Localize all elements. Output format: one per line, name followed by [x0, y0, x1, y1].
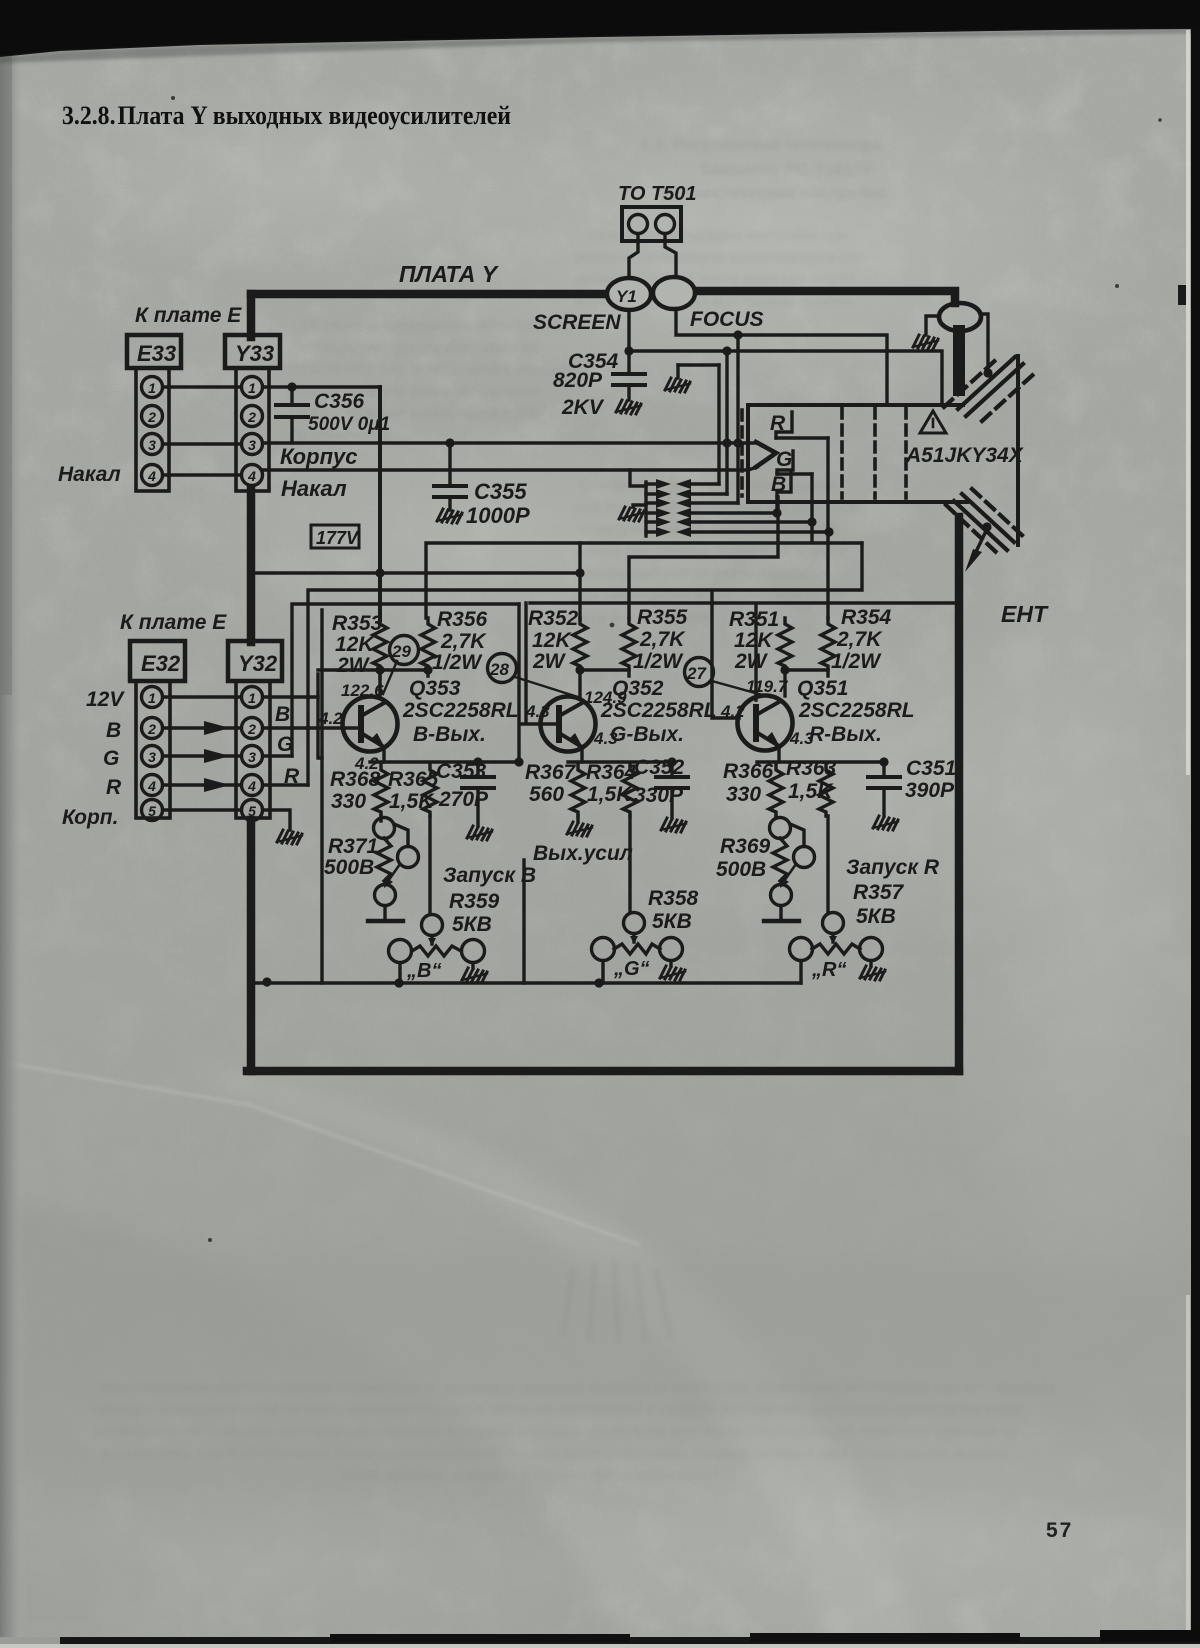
svg-text:Q352: Q352: [612, 677, 664, 700]
svg-text:R: R: [770, 412, 786, 435]
resistor R351 12K 2W: [778, 618, 792, 670]
svg-text:после прогрева аппарата в тече: после прогрева аппарата в течение пятнад…: [340, 1467, 719, 1484]
node junction (599,983): [594, 978, 603, 987]
wire top bus left of Y1: [251, 290, 608, 299]
wire E32 pin1 to Y32 pin1: [163, 695, 241, 698]
node junction (672,762): [667, 757, 676, 766]
svg-text:Запуск В: Запуск В: [443, 864, 536, 887]
svg-text:330P: 330P: [634, 784, 684, 807]
capacitor C352 330P: [634, 756, 688, 832]
svg-text:G: G: [103, 747, 119, 770]
svg-text:„В“: „В“: [406, 960, 441, 982]
capacitor C354: [553, 350, 645, 419]
arrow E32 pin3 to Y32 pin3: [163, 754, 241, 757]
svg-text:12K: 12K: [532, 629, 572, 652]
cathode R hook: [770, 412, 828, 438]
svg-text:ремонте телевизоров выполняютс: ремонте телевизоров выполняются в сле: [575, 249, 864, 266]
wire Y32 pin2 B base: [263, 726, 361, 729]
anode cap: [939, 303, 981, 331]
svg-text:2: 2: [147, 721, 156, 737]
ground of heater rail: [633, 505, 646, 507]
light patches: [380, 65, 1180, 415]
svg-text:4.2: 4.2: [318, 709, 343, 728]
svg-text:12K: 12K: [335, 633, 375, 656]
wire Y33 pin1 right to B+ rail: [263, 385, 378, 388]
wire collector node B: [318, 670, 428, 678]
wire E33 pin1 to Y33 pin1: [163, 385, 241, 388]
svg-text:3.2.8. Плата Y выходных видеоу: 3.2.8. Плата Y выходных видеоусилителей: [62, 101, 511, 130]
svg-text:2W: 2W: [336, 654, 371, 677]
node junction C356 tap: [287, 382, 296, 391]
resistor R354 2,7K 1/2W: [821, 618, 835, 670]
test point 27: [685, 658, 714, 687]
svg-text:1: 1: [148, 690, 156, 706]
wire B emitter riser x519: [517, 604, 520, 762]
wire rows to grid feeds: [692, 482, 719, 485]
connector Y32: [228, 641, 282, 821]
node junction (580,670): [575, 665, 584, 674]
svg-text:177V: 177V: [316, 528, 360, 548]
svg-text:500В: 500В: [716, 858, 766, 881]
wire left border segments: [247, 294, 256, 337]
svg-text:Корп.: Корп.: [62, 806, 118, 829]
svg-text:270P: 270P: [438, 788, 489, 811]
node junction (727,351): [722, 346, 731, 355]
wire base stub G: [522, 722, 559, 725]
svg-text:2KV: 2KV: [561, 396, 605, 419]
svg-text:2SC2258RL: 2SC2258RL: [402, 699, 519, 722]
svg-text:4: 4: [147, 468, 156, 484]
capacitor C356: [276, 387, 390, 443]
wire B+ rail from C356 junction: [378, 387, 382, 620]
svg-text:1: 1: [148, 380, 156, 396]
svg-text:820P: 820P: [553, 369, 603, 392]
wire bottom common bus: [251, 981, 801, 984]
svg-text:R353: R353: [332, 612, 383, 635]
bottom dark band: [60, 1637, 1200, 1644]
svg-text:12K: 12K: [734, 629, 774, 652]
resistor R356 2,7K 1/2W: [421, 618, 435, 670]
node junction (428,670): [423, 665, 432, 674]
label 177V boxed: [311, 525, 360, 548]
cathode B hook: [771, 473, 791, 513]
trimmer R371 500B: [324, 816, 419, 921]
svg-text:В-Вых.: В-Вых.: [413, 723, 486, 746]
svg-text:1000P: 1000P: [466, 503, 530, 528]
wire Y32 pin4 R: [263, 783, 308, 786]
svg-text:C356: C356: [314, 390, 365, 413]
wire G-output coupling line y557: [629, 497, 778, 618]
svg-text:R364: R364: [586, 761, 637, 784]
svg-text:При отклонении контролируемых: При отклонении контролируемых параметров…: [100, 1379, 1056, 1396]
svg-text:2: 2: [247, 721, 256, 737]
wire E33 pin3 to Y33 pin3: [163, 442, 241, 445]
wire stage R box top: [759, 601, 955, 604]
wire collector node R: [785, 670, 828, 676]
CRT A51JKY34X: [742, 303, 1049, 627]
ground: [665, 378, 690, 392]
test point 28: [488, 654, 517, 683]
connector Y33: [225, 335, 280, 491]
wire emitter to bus: [382, 748, 385, 762]
svg-text:3: 3: [148, 749, 156, 765]
node junction (399,983): [394, 978, 403, 987]
svg-text:1,5K: 1,5K: [389, 790, 435, 813]
ground: [860, 966, 885, 980]
wire Корпус line pin3: [263, 441, 757, 444]
node junction (380,573): [375, 568, 384, 577]
svg-text:29: 29: [391, 642, 411, 661]
connector E32: [130, 641, 185, 821]
ground: [913, 335, 938, 349]
wire grid feed v3: [736, 335, 739, 503]
wire E32 pin5 to Y32 pin5: [163, 808, 241, 811]
svg-text:C353: C353: [436, 760, 487, 783]
svg-text:2,7K: 2,7K: [440, 630, 487, 653]
spark gap B (R359): [389, 915, 488, 988]
node junction (738,443): [733, 438, 742, 447]
anode thick stub: [953, 331, 965, 390]
resistor R352 12K 2W: [573, 618, 587, 670]
wire Y32 pin1 12V: [263, 695, 318, 698]
ground: [661, 818, 686, 832]
wire FOCUS line: [676, 309, 887, 405]
svg-text:390P: 390P: [905, 779, 955, 802]
svg-text:1,5K: 1,5K: [587, 783, 633, 806]
svg-text:2,7K: 2,7K: [639, 628, 686, 651]
svg-text:C352: C352: [634, 756, 685, 779]
svg-text:потенциометров на плате кинеск: потенциометров на плате кинескопа: [575, 565, 830, 582]
svg-text:„R“: „R“: [811, 959, 846, 981]
ground: [616, 400, 641, 414]
wire B-output coupling line y543: [426, 474, 862, 618]
bottom broad shadow: [0, 1190, 620, 1648]
wire emitter to bus R: [777, 747, 780, 762]
svg-text:R354: R354: [841, 606, 892, 629]
wire inner box left vertical: [320, 610, 323, 983]
wire R-output lead down to R354: [826, 438, 829, 618]
node junction (580,573): [575, 568, 584, 577]
node junction (812,522): [807, 517, 816, 526]
svg-text:500В: 500В: [324, 856, 374, 879]
svg-text:постоянному току в контрольных: постоянному току в контрольных точках пр…: [100, 1445, 1007, 1462]
svg-text:5КВ: 5КВ: [856, 905, 896, 928]
node junction (884,762): [879, 757, 888, 766]
svg-text:Y33: Y33: [235, 341, 274, 366]
wire collector node G: [580, 670, 629, 676]
lower glass seal diagonals: [946, 489, 1024, 553]
node junction (785,670): [780, 665, 789, 674]
wire R base line y590: [308, 543, 862, 785]
ground: [873, 816, 898, 830]
funnel outline: [748, 403, 963, 407]
wire emitter bus R: [757, 760, 884, 763]
svg-text:2W: 2W: [734, 650, 769, 673]
svg-text:R356: R356: [437, 608, 488, 631]
svg-text:1,5K: 1,5K: [788, 780, 834, 803]
wire Накал line pin4: [263, 467, 757, 470]
svg-text:3: 3: [148, 437, 156, 453]
svg-text:2: 2: [247, 409, 256, 425]
wire collector drop to Q353: [378, 670, 381, 697]
wire ground stub near FOCUS line: [678, 363, 719, 366]
svg-text:Y1: Y1: [616, 287, 637, 306]
svg-text:4: 4: [247, 468, 256, 484]
node junction (267,982): [262, 977, 271, 986]
svg-text:27: 27: [686, 664, 707, 683]
svg-text:R368: R368: [330, 768, 381, 791]
wire stage G box top: [526, 603, 756, 721]
svg-text:2,7K: 2,7K: [836, 628, 883, 651]
svg-text:B: B: [771, 473, 786, 496]
svg-text:ПЛАТА Y: ПЛАТА Y: [399, 261, 500, 287]
svg-text:R358: R358: [648, 887, 699, 910]
svg-text:Q353: Q353: [409, 677, 461, 700]
svg-text:4.3: 4.3: [525, 702, 550, 721]
resistor R363 1,5K: [819, 764, 833, 816]
trimmer R369 500B: [716, 816, 815, 921]
svg-text:5КВ: 5КВ: [652, 910, 692, 933]
svg-text:„G“: „G“: [613, 958, 650, 980]
svg-text:R367: R367: [525, 761, 577, 784]
svg-text:G-Вых.: G-Вых.: [610, 723, 684, 746]
wire collector drop to Q351: [783, 670, 786, 696]
wire bottom border: [247, 1067, 959, 1076]
svg-text:таблиц по инструкции изготовит: таблиц по инструкции изготовителя: [290, 339, 538, 356]
left gutter shadow: [0, 40, 24, 1648]
svg-text:каскадов видеоусилителей на пл: каскадов видеоусилителей на плате кинеск…: [90, 1401, 1023, 1418]
svg-text:3: 3: [248, 749, 256, 765]
wire R363 down to spark gap R: [826, 816, 829, 912]
capacitor C355: [434, 443, 530, 528]
svg-text:330: 330: [331, 790, 366, 813]
node junction (777,513): [772, 508, 781, 517]
svg-text:A51JKY34X: A51JKY34X: [905, 444, 1025, 467]
svg-text:330: 330: [726, 783, 761, 806]
resistor R366 330: [769, 764, 783, 816]
svg-text:4.2: 4.2: [720, 702, 745, 721]
svg-text:R-Вых.: R-Вых.: [809, 723, 882, 746]
node junction (727,443): [722, 438, 731, 447]
svg-text:1.2. Регулировка телевизора: 1.2. Регулировка телевизора: [640, 135, 882, 154]
wire grid feed v2: [725, 351, 728, 494]
svg-text:TO T501: TO T501: [618, 183, 697, 205]
wire Y32 pin5 to ground: [263, 810, 290, 830]
resistor R368 330: [374, 764, 388, 816]
ground: [462, 968, 487, 982]
svg-text:28: 28: [489, 660, 509, 679]
svg-text:5: 5: [248, 803, 256, 819]
chevron pointer to G cathode: [756, 442, 776, 467]
node junction (738,335): [733, 330, 742, 339]
board outline thick border: [247, 291, 959, 1071]
ghost bleed-through text: [290, 135, 887, 626]
wire E33 pin4 to Y33 pin4: [163, 473, 241, 476]
right black edge: [1191, 27, 1200, 1648]
wire G base line y604: [292, 604, 519, 756]
svg-text:4: 4: [247, 778, 256, 794]
svg-text:R363: R363: [786, 757, 837, 780]
spark gap G (R358): [592, 913, 686, 988]
svg-text:Y32: Y32: [238, 651, 278, 676]
svg-text:EHT: EHT: [1001, 601, 1049, 627]
ground: [277, 830, 302, 844]
ground: [437, 509, 462, 523]
svg-text:Накал: Накал: [58, 463, 121, 486]
svg-text:2SC2258RL: 2SC2258RL: [798, 699, 915, 722]
wire 177V distribution y574: [251, 543, 580, 620]
svg-text:R369: R369: [720, 835, 771, 858]
arrow E32 pin4 to Y32 pin4: [163, 783, 241, 786]
wire collector drop to Q352: [578, 670, 581, 697]
svg-text:5: 5: [148, 803, 156, 819]
svg-text:R366: R366: [723, 760, 774, 783]
resistor R353 12K 2W: [373, 618, 387, 670]
capacitor C351 390P: [868, 757, 956, 830]
svg-text:Корпус: Корпус: [280, 444, 357, 469]
svg-text:Samsonic PC-T161TF: Samsonic PC-T161TF: [700, 160, 874, 179]
wire SCREEN line from Y1: [629, 310, 942, 405]
node letters B G R: [275, 703, 300, 788]
svg-text:R352: R352: [528, 607, 579, 630]
svg-text:119.7: 119.7: [746, 677, 789, 696]
transistor Q353: [343, 697, 398, 752]
svg-text:57: 57: [1046, 1519, 1073, 1542]
wire R364 down to spark gap G: [628, 816, 631, 912]
black top band: [0, 0, 1200, 57]
wire heater rail: [644, 482, 647, 536]
resistor R355 2,7K 1/2W: [622, 618, 636, 670]
svg-text:4: 4: [147, 778, 156, 794]
node junction (829,532): [824, 527, 833, 536]
svg-text:2SC2258RL: 2SC2258RL: [600, 699, 717, 722]
connector E33: [127, 335, 181, 491]
svg-text:G: G: [277, 733, 293, 756]
wire R365 down to spark gap B: [428, 816, 431, 914]
node junction (629,351): [624, 346, 633, 355]
svg-text:ПТУ-38 НТВ 142 приведенной в о: ПТУ-38 НТВ 142 приведенной в описании: [290, 361, 582, 378]
svg-text:C351: C351: [906, 757, 956, 780]
test point 29: [390, 636, 419, 665]
wire top bus right of FOCUS oval: [695, 291, 955, 303]
transistor Q352: [541, 697, 596, 752]
wire stage B box right lower: [522, 860, 525, 983]
connector FOCUS oval: [653, 277, 695, 309]
svg-text:Q351: Q351: [797, 677, 848, 700]
svg-text:FOCUS: FOCUS: [690, 308, 764, 331]
svg-text:1/2W: 1/2W: [633, 650, 684, 673]
svg-text:R: R: [106, 776, 122, 799]
svg-text:SCREEN: SCREEN: [533, 311, 621, 334]
upper glass seal diagonals: [944, 356, 1036, 421]
svg-text:2W: 2W: [532, 650, 567, 673]
svg-text:C355: C355: [474, 479, 527, 504]
dashed internal grid leads: [742, 408, 906, 498]
svg-text:G: G: [776, 448, 792, 471]
svg-text:B: B: [275, 703, 290, 726]
spark gap R (R357): [790, 913, 886, 984]
capacitor C353 270P: [436, 760, 494, 840]
node junction (988,373): [983, 368, 992, 377]
connector T501: [622, 207, 681, 279]
wire grid feed v1: [717, 365, 720, 484]
connector Y1 oval: [607, 278, 651, 310]
svg-text:1/2W: 1/2W: [831, 650, 882, 673]
svg-text:R365: R365: [388, 768, 439, 791]
wire right border below CRT: [955, 517, 964, 1071]
svg-text:необходимости заменить неиспра: необходимости заменить неисправные элеме…: [95, 1423, 1018, 1440]
EHT lead: [982, 522, 991, 531]
svg-text:R357: R357: [853, 881, 905, 904]
svg-text:Запуск R: Запуск R: [846, 856, 940, 879]
svg-text:К плате Е: К плате Е: [135, 304, 242, 327]
svg-text:12V: 12V: [86, 688, 125, 711]
heater socket arrows cluster: [619, 470, 829, 537]
svg-text:1/2W: 1/2W: [432, 651, 483, 674]
node junction (519,762): [514, 757, 523, 766]
ground: [619, 507, 644, 521]
ground: [660, 966, 685, 980]
wire emitter bus G: [568, 760, 672, 763]
node junction C355 tap: [445, 438, 454, 447]
svg-text:B: B: [106, 719, 121, 742]
wire emitter to bus G: [580, 748, 583, 762]
resistor R365 1,5K: [423, 764, 437, 816]
svg-text:500V 0μ1: 500V 0μ1: [308, 414, 390, 435]
ground: [467, 826, 492, 840]
warning triangle: [920, 411, 946, 433]
svg-text:R351: R351: [729, 608, 779, 631]
cathode G hook: [776, 448, 812, 474]
svg-text:R355: R355: [637, 606, 688, 629]
node junction (380,670): [375, 665, 384, 674]
node junction (478,762): [473, 757, 482, 766]
svg-text:1: 1: [248, 690, 256, 706]
wire Y32 pin3 G: [263, 754, 292, 757]
svg-text:R371: R371: [328, 835, 378, 858]
svg-text:3: 3: [248, 437, 256, 453]
resistor R364 1,5K: [623, 764, 637, 816]
svg-text:R359: R359: [449, 890, 500, 913]
svg-text:R: R: [284, 765, 300, 788]
svg-text:1: 1: [248, 380, 256, 396]
ground: [567, 822, 592, 836]
wire 12V riser: [318, 674, 322, 758]
wire T501 left pin to Y1: [629, 234, 638, 279]
wire T501 right pin to FOCUS oval: [665, 234, 676, 278]
svg-text:5КВ: 5КВ: [452, 913, 492, 936]
svg-text:E33: E33: [137, 341, 176, 366]
transistor Q351: [738, 696, 793, 751]
svg-text:Накал: Накал: [281, 476, 347, 501]
resistor R367 560: [571, 764, 585, 816]
wire emitter bus B: [370, 760, 519, 763]
labels left of E32: [62, 688, 125, 829]
arrow E32 pin2 to Y32 pin2: [163, 726, 241, 729]
svg-text:2: 2: [147, 409, 156, 425]
svg-text:К плате Е: К плате Е: [120, 611, 227, 634]
creases: [0, 1062, 640, 1245]
svg-text:E32: E32: [141, 651, 181, 676]
svg-text:Вых.усил: Вых.усил: [533, 842, 633, 865]
svg-text:560: 560: [529, 783, 564, 806]
